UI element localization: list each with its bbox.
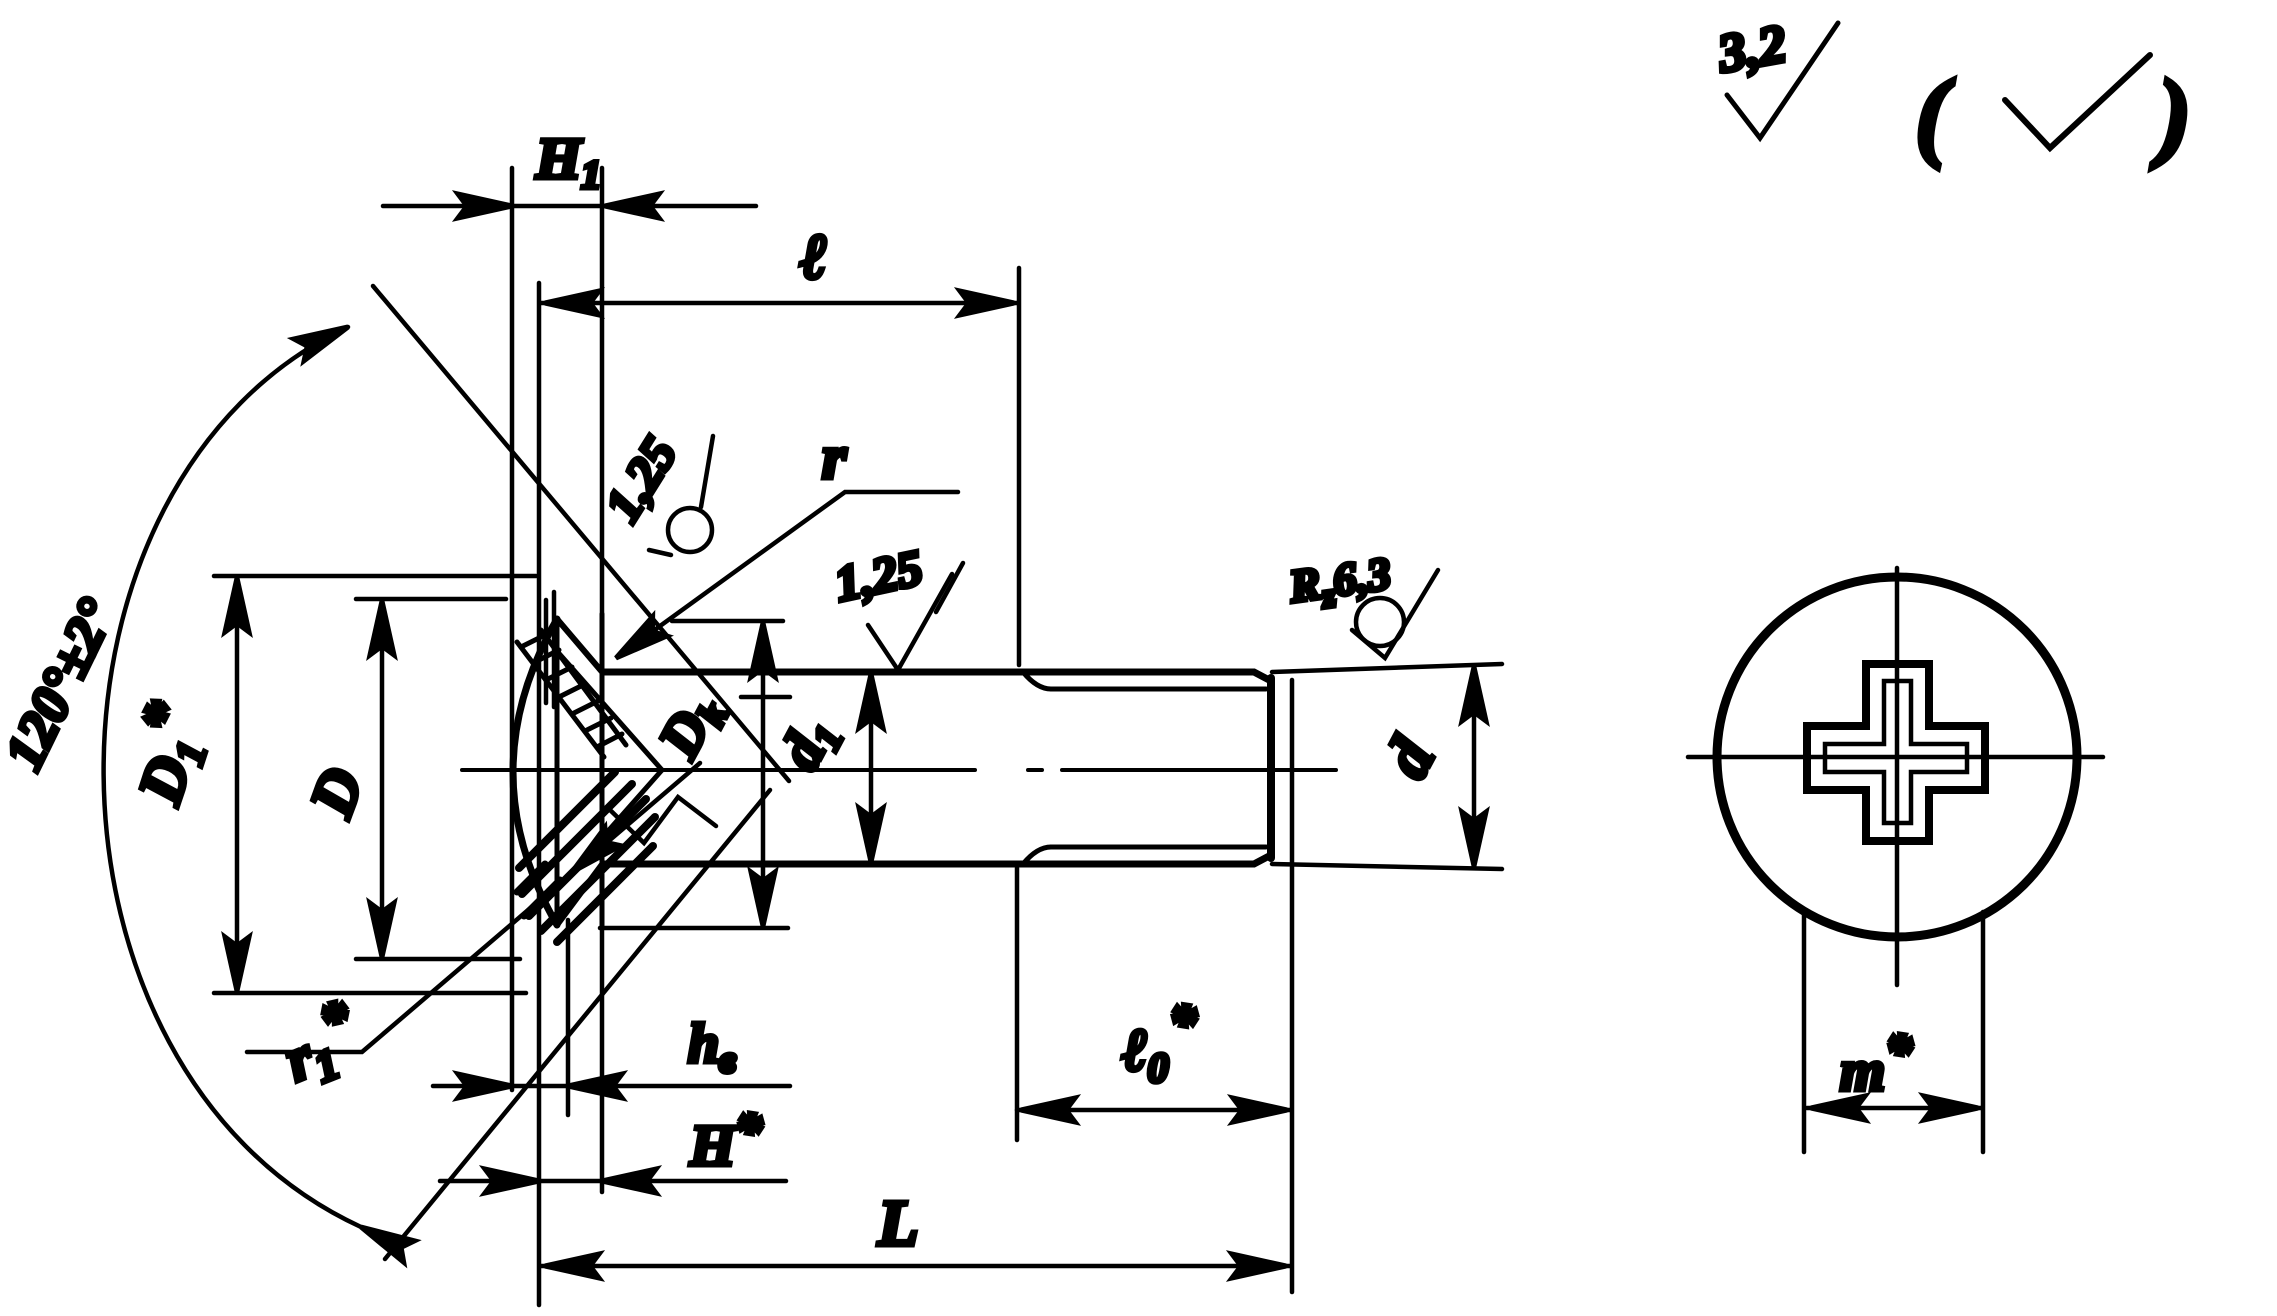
head bearing edge <box>600 614 605 928</box>
svg-text:r: r <box>822 424 847 492</box>
svg-text:3,2: 3,2 <box>1713 13 1791 84</box>
section hatch short lines head bottom tip <box>517 864 560 916</box>
end view circle <box>1717 577 2077 937</box>
recess edge line top half <box>544 600 549 703</box>
svg-text:L: L <box>877 1187 918 1260</box>
recess wing top <box>556 650 662 770</box>
dimension h_v <box>433 1084 790 1089</box>
section hatch lines lower band <box>519 772 655 942</box>
extension line through dome apex <box>510 168 515 1090</box>
dimension D <box>356 597 506 602</box>
roughness Rz6,3 on thread <box>1285 547 1438 658</box>
axis centerline of screw (dash-dot) <box>462 768 1336 772</box>
angle 120 deg arc <box>104 327 361 1227</box>
thread runout top <box>1023 672 1051 689</box>
dimension Dk <box>672 619 783 624</box>
extension line l right <box>1017 268 1022 665</box>
shank outline bottom <box>603 855 1271 864</box>
head dome front arc <box>513 619 557 925</box>
extension line head top plane <box>537 283 542 1305</box>
dimension D1 <box>214 574 536 579</box>
local section zigzag <box>608 797 716 843</box>
svg-text:ℓ: ℓ <box>800 221 827 292</box>
recess edge line top half second <box>552 592 557 707</box>
thread root top <box>1051 687 1266 692</box>
rod end face <box>1267 678 1275 858</box>
roughness 1,25 on head <box>594 427 713 555</box>
leader r <box>620 492 958 655</box>
extension line m left <box>1802 912 1807 1152</box>
extension line m right <box>1981 912 1986 1152</box>
recess cross outer outline <box>1807 664 1985 841</box>
dimension d <box>1272 664 1502 672</box>
roughness 1,25 on shank <box>830 539 963 670</box>
section hatch band upper boundary 1 <box>517 642 604 757</box>
section break stub line <box>741 695 790 700</box>
extension line bearing plane <box>600 168 605 1192</box>
angle 120 deg lower leg <box>385 790 770 1259</box>
head cone top edge <box>557 619 603 673</box>
dimension m <box>1807 1106 1982 1111</box>
extension line short lower <box>566 920 571 1115</box>
section hatch band upper boundary 2 <box>541 630 626 745</box>
dimension L <box>541 1264 1290 1269</box>
roughness (check) general <box>1915 55 2191 170</box>
dimension H1 <box>383 204 756 209</box>
angle 120 deg upper leg <box>373 286 789 781</box>
head rim line <box>555 619 560 925</box>
dimension H* <box>440 1179 786 1184</box>
end view vertical centerline <box>1895 568 1900 985</box>
recess cross inner outline <box>1825 681 1967 823</box>
end view horizontal centerline <box>1688 755 2103 760</box>
recess wing bottom <box>556 770 662 890</box>
dimension l0 <box>1017 1108 1291 1113</box>
shank outline top <box>603 672 1271 681</box>
head cone bottom edge <box>557 863 603 925</box>
extension line l0 left <box>1015 868 1020 1140</box>
thread root bottom <box>1051 845 1266 850</box>
dimension l <box>541 301 1018 306</box>
extension line rod end <box>1290 680 1295 1292</box>
roughness 3,2 general <box>1713 13 1838 138</box>
hatch rungs upper band <box>521 634 622 747</box>
dimension d1 <box>869 674 874 862</box>
leader r1 <box>247 763 700 1052</box>
thread runout bottom <box>1023 847 1051 864</box>
